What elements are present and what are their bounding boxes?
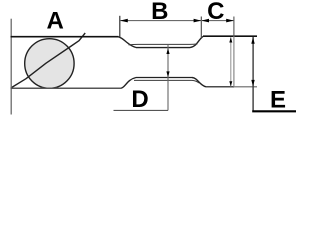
svg-text:A: A	[47, 8, 64, 35]
svg-text:E: E	[270, 87, 286, 114]
svg-text:C: C	[207, 0, 224, 25]
svg-text:D: D	[131, 86, 148, 113]
svg-text:B: B	[151, 0, 168, 25]
